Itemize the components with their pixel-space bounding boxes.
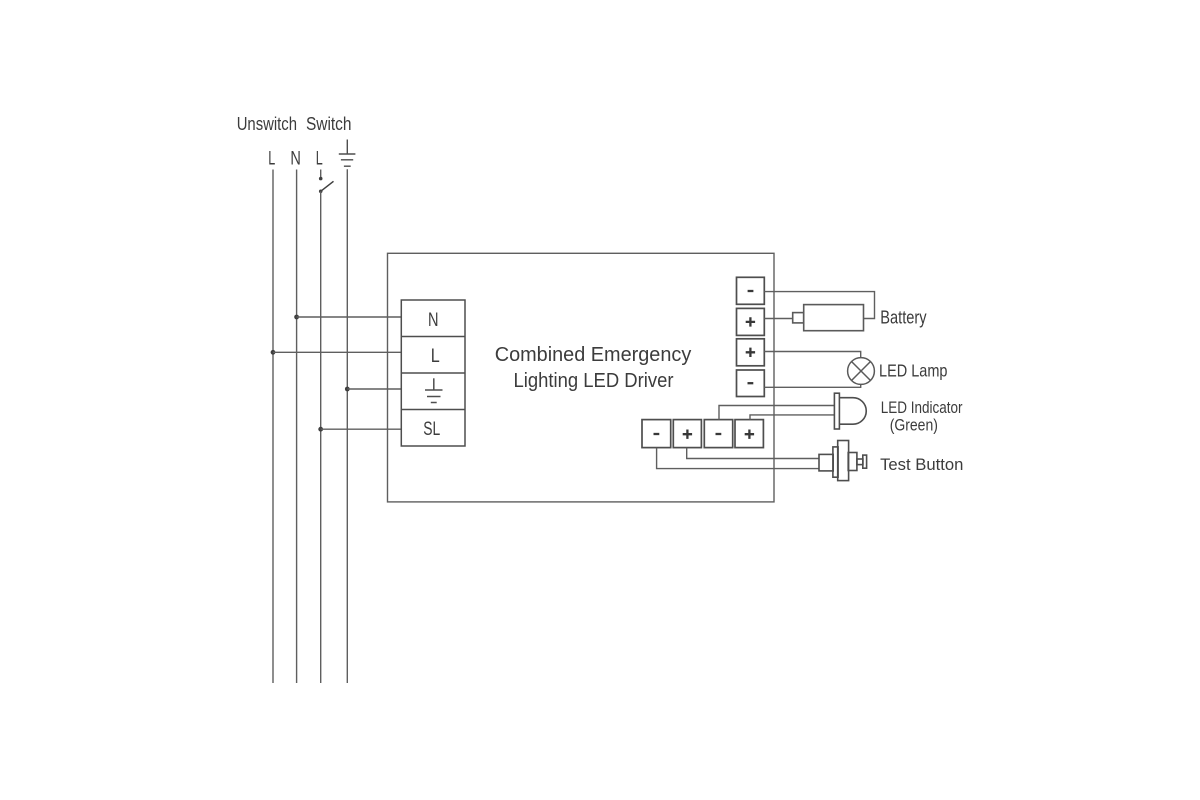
terminal box minus (battery -) [737, 277, 765, 396]
pin label + (test button) [683, 430, 692, 439]
junction node on earth wire [345, 387, 350, 392]
svg-text:N: N [290, 148, 301, 169]
label Combined Emergency Lighting LED Driver [495, 344, 692, 392]
pin label - (lamp minus) [748, 382, 754, 384]
ground symbol (earth at top) [339, 140, 356, 167]
pin label + (lamp plus) [746, 348, 755, 357]
wire lamp minus [764, 385, 860, 388]
svg-text:SL: SL [423, 418, 440, 440]
svg-text:LED Lamp: LED Lamp [879, 361, 948, 381]
wire led indicator anode [719, 406, 834, 420]
test button SW2 [819, 441, 867, 481]
wire lamp plus [764, 352, 860, 358]
wire switched-L vertical [320, 191, 322, 683]
wire test button plus [687, 448, 819, 459]
wire earth vertical [346, 169, 348, 683]
wire L branch to terminal L [273, 351, 401, 353]
switch S1 [319, 177, 334, 193]
pin label - (test button) [654, 433, 660, 435]
pin label - (battery minus) [748, 290, 754, 292]
wire L vertical [272, 170, 274, 684]
wire earth branch to terminal earth [347, 388, 401, 390]
LED indicator D1 [834, 393, 866, 429]
wire N vertical [296, 170, 298, 684]
svg-text:LED Indicator: LED Indicator [881, 398, 963, 417]
svg-text:L: L [316, 148, 323, 169]
wire switched-L upper stub [320, 170, 322, 178]
lamp DS1 (circle with X) [848, 358, 875, 385]
svg-text:(Green): (Green) [890, 416, 938, 435]
pin label + (battery plus) [746, 317, 755, 326]
wire battery plus [764, 318, 792, 320]
pin label - (led indicator) [716, 433, 722, 435]
svg-text:L: L [431, 346, 440, 367]
svg-text:L: L [268, 148, 275, 169]
wire led indicator cathode [750, 415, 834, 420]
junction node on L wire [271, 350, 276, 355]
junction node on N wire [294, 315, 299, 320]
svg-text:N: N [428, 310, 439, 331]
svg-text:Combined Emergency: Combined Emergency [495, 344, 692, 366]
wire test button minus [657, 448, 819, 469]
driver box U1 [388, 253, 775, 502]
bottom terminal boxes row [642, 420, 763, 448]
earth symbol (terminal block) [425, 378, 443, 402]
pin label + (led indicator) [745, 430, 754, 439]
wire battery minus [764, 292, 874, 319]
svg-text:Battery: Battery [880, 306, 927, 327]
svg-text:Unswitch: Unswitch [237, 114, 297, 134]
junction node on switched-L wire [318, 427, 323, 432]
terminal block TB1 [401, 300, 465, 446]
battery BT1 [793, 305, 864, 331]
svg-text:Switch: Switch [306, 114, 352, 134]
wire N branch to terminal N [297, 316, 402, 318]
svg-text:Test Button: Test Button [880, 455, 963, 474]
wire SL branch to terminal SL [321, 428, 402, 430]
svg-text:Lighting LED Driver: Lighting LED Driver [514, 370, 674, 392]
